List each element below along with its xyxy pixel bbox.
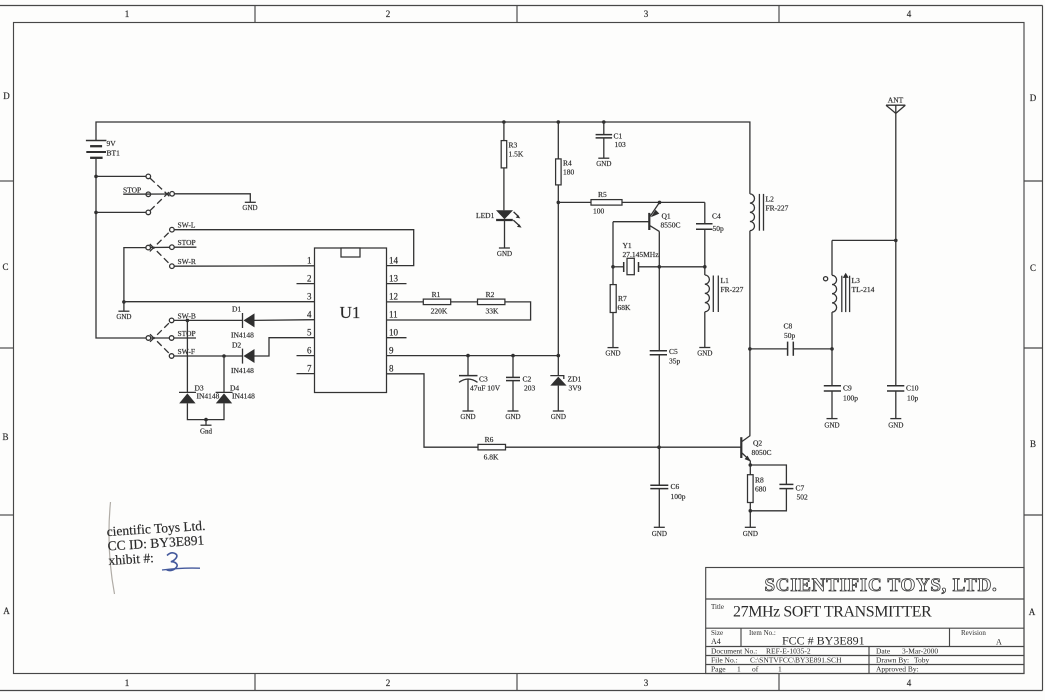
svg-text:27MHz SOFT TRANSMITTER: 27MHz SOFT TRANSMITTER: [733, 604, 932, 621]
svg-text:13: 13: [389, 274, 399, 284]
zener ZD1 3V9: [550, 356, 581, 421]
resistor R5 100: [591, 190, 622, 216]
svg-text:1: 1: [125, 9, 130, 19]
svg-text:U1: U1: [340, 303, 361, 322]
svg-text:SW-R: SW-R: [178, 257, 196, 266]
node C3 top: [466, 354, 470, 358]
svg-text:1: 1: [737, 665, 741, 674]
svg-text:220K: 220K: [431, 307, 448, 316]
wire top power rail: [96, 122, 750, 194]
capacitor C5 35p: [650, 347, 681, 447]
svg-text:203: 203: [524, 384, 536, 393]
node Y1 left: [611, 265, 615, 269]
svg-text:GND: GND: [824, 421, 839, 429]
svg-text:TL-214: TL-214: [852, 285, 875, 294]
wire C8 row: [750, 348, 788, 350]
node Q2 emitter: [749, 463, 753, 467]
node R8 bottom: [749, 509, 753, 513]
svg-text:5: 5: [307, 328, 312, 338]
battery BT1: [86, 139, 120, 158]
svg-text:STOP: STOP: [178, 238, 196, 247]
svg-text:A: A: [3, 606, 10, 616]
transistor Q2 8050C: [741, 436, 771, 466]
antenna ANT: [886, 96, 905, 241]
svg-text:C: C: [1030, 263, 1036, 273]
svg-text:2: 2: [386, 9, 391, 19]
svg-text:Q1: Q1: [662, 212, 671, 221]
svg-text:C2: C2: [523, 375, 532, 384]
svg-text:9V: 9V: [107, 139, 117, 148]
node C5/C6/R6: [657, 445, 661, 449]
svg-text:2: 2: [307, 274, 312, 284]
svg-text:C:\SNTVFCC\BY3E891.SCH: C:\SNTVFCC\BY3E891.SCH: [750, 656, 842, 665]
svg-text:3: 3: [644, 678, 649, 688]
wire SW-B row: [174, 319, 242, 321]
wire R6 to Q2 base: [506, 446, 741, 448]
svg-text:D1: D1: [232, 305, 241, 314]
resistor R1 220K: [423, 290, 450, 316]
node R3 top rail: [502, 120, 506, 124]
svg-text:C1: C1: [614, 131, 623, 140]
svg-text:Date: Date: [876, 647, 891, 656]
wire R1 to R2: [451, 301, 478, 303]
ground Q2: [743, 527, 758, 538]
capacitor C10 10p: [887, 384, 919, 430]
svg-text:100p: 100p: [843, 394, 858, 403]
wire SW2 common to GND node: [124, 248, 146, 302]
svg-text:A4: A4: [711, 637, 721, 646]
svg-text:R4: R4: [563, 159, 572, 168]
svg-text:GND: GND: [497, 250, 512, 258]
svg-text:C9: C9: [843, 384, 852, 393]
transistor Q1 8550C: [613, 202, 681, 350]
svg-text:1: 1: [307, 256, 312, 266]
svg-text:1: 1: [125, 678, 130, 688]
wire pin9 row: [387, 355, 559, 357]
svg-text:3: 3: [644, 9, 649, 19]
wire R5 to Q1/C4: [622, 201, 705, 203]
svg-text:D2: D2: [232, 340, 241, 349]
svg-text:4: 4: [907, 678, 912, 688]
capacitor C9 100p: [824, 349, 858, 430]
svg-text:File No.:: File No.:: [711, 656, 738, 665]
wire C8 to L3 column: [793, 348, 832, 350]
title block: [706, 568, 1024, 674]
svg-text:L2: L2: [766, 195, 775, 204]
wire R2 to pin11: [387, 302, 531, 320]
svg-text:C10: C10: [906, 384, 919, 393]
svg-text:502: 502: [797, 493, 809, 502]
resistor R8 680: [748, 465, 767, 527]
node L3 bottom: [830, 347, 834, 351]
inductor L2 FR-227: [750, 194, 789, 231]
svg-text:Item No.:: Item No.:: [749, 629, 776, 637]
svg-text:STOP: STOP: [178, 329, 196, 338]
svg-text:10: 10: [389, 328, 399, 338]
svg-text:9: 9: [389, 346, 394, 356]
svg-text:4: 4: [307, 310, 312, 320]
wire SW1 common to GND: [174, 194, 250, 203]
U1 left pin stubs: [297, 256, 315, 374]
svg-text:100p: 100p: [671, 492, 686, 501]
svg-text:3V9: 3V9: [569, 384, 582, 393]
diode D4 IN4148: [206, 356, 255, 420]
capacitor C7 502: [750, 465, 808, 511]
stamp FCC exhibit: [106, 502, 207, 594]
svg-text:R1: R1: [432, 290, 441, 299]
svg-text:Gnd: Gnd: [200, 428, 213, 436]
svg-text:Page: Page: [711, 665, 726, 674]
svg-text:Y1: Y1: [623, 241, 632, 250]
svg-text:LED1: LED1: [476, 211, 495, 220]
svg-text:SCIENTIFIC TOYS, LTD.: SCIENTIFIC TOYS, LTD.: [765, 575, 998, 596]
inductor L3 TL-214: [824, 240, 875, 349]
node ZD1 top: [557, 354, 561, 358]
wire antenna down to C10: [895, 240, 897, 385]
svg-text:GND: GND: [605, 349, 620, 357]
svg-text:IN4148: IN4148: [231, 366, 254, 375]
ground D3/D4: [200, 420, 213, 436]
capacitor C4 50p: [696, 202, 724, 266]
svg-text:BT1: BT1: [107, 149, 121, 158]
svg-text:GND: GND: [116, 313, 131, 321]
switch SW2 (SW-L / STOP / SW-R): [146, 221, 197, 269]
diode D2 IN4148: [231, 338, 315, 375]
svg-text:R7: R7: [618, 294, 627, 303]
resistor R6 6.8K: [478, 435, 506, 462]
svg-text:R3: R3: [509, 141, 518, 150]
node pin3 gnd: [122, 300, 126, 304]
wire SW-F row: [174, 355, 242, 357]
svg-text:C3: C3: [479, 375, 488, 384]
svg-text:1.5K: 1.5K: [509, 150, 524, 159]
LED LED1: [476, 210, 522, 258]
wire SW-L to pin14: [174, 230, 414, 266]
svg-text:IN4148: IN4148: [231, 331, 254, 340]
svg-text:C6: C6: [671, 482, 680, 491]
svg-text:STOP: STOP: [123, 186, 141, 195]
crystal Y1 27.145MHz: [613, 241, 705, 275]
node antenna column: [894, 239, 898, 243]
svg-text:D: D: [3, 91, 10, 101]
svg-text:GND: GND: [551, 413, 566, 421]
svg-text:47uF 10V: 47uF 10V: [470, 384, 501, 393]
ground sw1: [242, 202, 257, 212]
svg-text:8550C: 8550C: [661, 221, 681, 230]
svg-text:A: A: [1029, 607, 1036, 617]
svg-text:ANT: ANT: [888, 96, 904, 105]
wire L2 bottom to Q2 collector: [749, 231, 751, 436]
svg-text:A: A: [996, 638, 1002, 647]
svg-text:103: 103: [615, 140, 627, 149]
svg-text:GND: GND: [652, 530, 667, 538]
svg-text:GND: GND: [460, 413, 475, 421]
svg-text:GND: GND: [888, 421, 903, 429]
wire SW-R to pin1: [174, 265, 314, 267]
svg-text:10p: 10p: [907, 394, 919, 403]
svg-text:SW-L: SW-L: [178, 221, 196, 230]
svg-text:GND: GND: [697, 349, 712, 357]
node C2 top: [511, 354, 515, 358]
svg-text:4: 4: [907, 9, 912, 19]
resistor R2 33K: [478, 290, 505, 316]
node Q1 emitter: [658, 201, 662, 205]
ground pin3: [116, 302, 131, 321]
capacitor C6 100p: [650, 447, 685, 538]
capacitor C2 203: [505, 356, 535, 421]
wire pin12 to R1: [387, 301, 424, 303]
wire to SW1 bottom contact: [96, 211, 146, 213]
svg-text:3-Mar-2000: 3-Mar-2000: [902, 647, 938, 656]
node R4 top rail: [557, 120, 561, 124]
node R5 takeoff: [557, 201, 561, 205]
wire L3 top to antenna column: [832, 239, 896, 241]
svg-text:8: 8: [389, 364, 394, 374]
svg-text:Toby: Toby: [914, 656, 930, 665]
svg-text:8050C: 8050C: [752, 448, 772, 457]
svg-text:Approved By:: Approved By:: [876, 665, 919, 674]
svg-text:Title: Title: [711, 603, 724, 611]
svg-text:R6: R6: [485, 435, 494, 444]
node battery-sw1 bottom: [94, 211, 98, 215]
svg-text:Q2: Q2: [753, 439, 762, 448]
svg-text:L1: L1: [721, 276, 730, 285]
resistor R3 1.5K: [501, 122, 524, 210]
node battery-sw1 top: [94, 175, 98, 179]
svg-text:680: 680: [755, 485, 767, 494]
svg-text:C4: C4: [712, 212, 721, 221]
inductor L1 FR-227: [697, 267, 743, 358]
svg-text:100: 100: [593, 207, 605, 216]
svg-text:11: 11: [389, 310, 398, 320]
svg-text:3: 3: [307, 292, 312, 302]
svg-text:1: 1: [778, 665, 782, 674]
svg-text:SW-F: SW-F: [178, 347, 196, 356]
svg-text:Revision: Revision: [961, 629, 986, 637]
svg-text:C: C: [2, 262, 8, 272]
svg-text:C8: C8: [784, 322, 793, 331]
svg-text:IN4148: IN4148: [232, 391, 255, 400]
svg-text:12: 12: [389, 292, 398, 302]
svg-text:GND: GND: [596, 160, 611, 168]
U1 right pin stubs: [387, 256, 407, 374]
wire pin3: [124, 301, 315, 303]
svg-text:C7: C7: [796, 484, 805, 493]
wire R5 row: [558, 201, 591, 203]
capacitor C8 50p: [784, 322, 796, 356]
switch SW3 (SW-B / STOP / SW-F): [146, 311, 196, 358]
wire battery bottom to switch column: [96, 158, 146, 338]
svg-text:FR-227: FR-227: [721, 285, 744, 294]
svg-text:50p: 50p: [784, 331, 796, 340]
svg-text:xhibit #:: xhibit #:: [108, 550, 154, 568]
svg-text:ZD1: ZD1: [568, 375, 582, 384]
switch SW1 STOP: [123, 174, 174, 215]
svg-text:35p: 35p: [669, 357, 681, 366]
svg-text:6: 6: [307, 346, 312, 356]
svg-text:27.145MHz: 27.145MHz: [623, 250, 660, 259]
svg-text:L3: L3: [852, 276, 861, 285]
svg-text:D: D: [1030, 93, 1037, 103]
node C1 top rail: [602, 120, 606, 124]
svg-text:R5: R5: [598, 190, 607, 199]
capacitor C1 103: [596, 122, 626, 168]
svg-text:50p: 50p: [713, 224, 725, 233]
svg-text:68K: 68K: [618, 303, 632, 312]
svg-text:GND: GND: [242, 204, 257, 212]
svg-text:R2: R2: [486, 290, 495, 299]
svg-text:REF-E-1035-2: REF-E-1035-2: [766, 647, 811, 656]
svg-text:Document No.:: Document No.:: [711, 647, 757, 656]
svg-text:B: B: [2, 432, 8, 442]
resistor R7 68K: [605, 285, 631, 358]
node SW-B / D3: [186, 319, 190, 323]
svg-text:2: 2: [386, 678, 391, 688]
resistor R4 180: [556, 122, 575, 356]
diode D1 IN4148: [231, 305, 315, 340]
wire Q1 base down: [612, 222, 614, 285]
svg-text:6.8K: 6.8K: [484, 453, 499, 462]
svg-text:C5: C5: [669, 347, 678, 356]
capacitor C3 47uF: [459, 356, 501, 421]
svg-text:33K: 33K: [486, 307, 500, 316]
wire pin8 to R6: [387, 374, 479, 447]
svg-text:of: of: [752, 665, 759, 674]
svg-text:7: 7: [307, 364, 312, 374]
node Y1 right: [658, 265, 662, 269]
svg-text:14: 14: [389, 256, 399, 266]
op-amp U1 (IC box): [315, 248, 387, 393]
svg-text:Drawn By:: Drawn By:: [876, 656, 909, 665]
node C4/L1: [703, 265, 707, 269]
diode D3 IN4148: [179, 320, 220, 419]
svg-text:FR-227: FR-227: [766, 204, 789, 213]
node D3/D4 ground: [204, 418, 208, 422]
svg-text:B: B: [1030, 439, 1036, 449]
svg-text:GND: GND: [743, 530, 758, 538]
wire to SW1 top contact: [96, 175, 146, 177]
svg-text:Size: Size: [711, 629, 723, 637]
node SW-F / D4: [222, 354, 226, 358]
svg-text:R8: R8: [755, 476, 764, 485]
node C8 takeoff: [748, 347, 752, 351]
svg-text:GND: GND: [505, 413, 520, 421]
svg-text:FCC # BY3E891: FCC # BY3E891: [782, 634, 865, 648]
svg-text:180: 180: [563, 168, 575, 177]
